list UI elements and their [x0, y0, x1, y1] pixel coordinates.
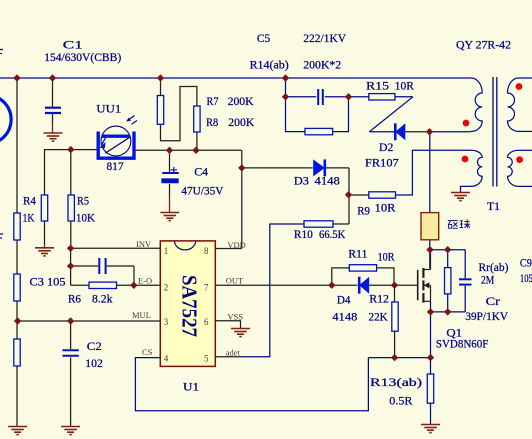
- svg-text:C2: C2: [87, 339, 102, 353]
- svg-text:Cr: Cr: [486, 294, 500, 308]
- svg-text:2M: 2M: [481, 273, 494, 287]
- svg-text:222/1KV: 222/1KV: [303, 31, 346, 45]
- svg-text:10K: 10K: [76, 211, 95, 225]
- svg-text:10R: 10R: [375, 200, 396, 214]
- svg-text:U1: U1: [183, 380, 199, 394]
- svg-text:R14(ab): R14(ab): [250, 58, 289, 72]
- svg-text:R5: R5: [77, 194, 89, 208]
- svg-text:200K: 200K: [228, 94, 254, 108]
- svg-text:UU1: UU1: [96, 102, 121, 116]
- svg-text:1: 1: [164, 246, 169, 256]
- svg-text:D4: D4: [337, 292, 351, 306]
- svg-text:22K: 22K: [369, 309, 389, 323]
- svg-text:adet: adet: [226, 348, 241, 358]
- svg-text:39P/1KV: 39P/1KV: [465, 309, 508, 323]
- svg-text:C5: C5: [257, 31, 270, 45]
- svg-text:INV: INV: [136, 239, 152, 249]
- svg-text:R7: R7: [207, 94, 219, 108]
- svg-text:200K: 200K: [228, 115, 254, 129]
- svg-text:8: 8: [204, 246, 209, 256]
- svg-text:R6: R6: [68, 292, 81, 306]
- svg-text:154/630V(CBB): 154/630V(CBB): [44, 50, 121, 64]
- svg-text:817: 817: [107, 159, 124, 173]
- svg-text:102: 102: [85, 356, 103, 370]
- svg-text:C3 105: C3 105: [30, 275, 66, 289]
- svg-text:VDD: VDD: [227, 240, 245, 250]
- svg-text:R15: R15: [366, 79, 389, 93]
- svg-text:SA7527: SA7527: [178, 275, 202, 337]
- svg-text:T1: T1: [487, 199, 500, 213]
- svg-text:R13(ab): R13(ab): [370, 375, 422, 389]
- svg-text:R10: R10: [294, 227, 313, 241]
- svg-text:0.5R: 0.5R: [389, 393, 412, 407]
- svg-text:8.2k: 8.2k: [92, 292, 113, 306]
- svg-text:C9: C9: [520, 255, 532, 269]
- svg-text:5: 5: [204, 354, 209, 364]
- svg-text:OUT: OUT: [226, 275, 244, 285]
- svg-text:4148: 4148: [332, 309, 357, 323]
- svg-text:7: 7: [204, 283, 209, 293]
- svg-text:QY 27R-42: QY 27R-42: [456, 38, 511, 52]
- svg-text:10R: 10R: [395, 79, 414, 93]
- svg-text:4: 4: [164, 354, 169, 364]
- svg-text:105: 105: [520, 271, 532, 285]
- svg-text:SVD8N60F: SVD8N60F: [436, 337, 489, 351]
- svg-text:R4: R4: [23, 194, 36, 208]
- svg-text:C4: C4: [194, 165, 208, 179]
- svg-text:R9: R9: [357, 204, 370, 218]
- svg-text:D2: D2: [379, 140, 393, 154]
- svg-text:4148: 4148: [315, 174, 340, 188]
- svg-text:R11: R11: [348, 247, 367, 261]
- svg-text:10R: 10R: [378, 249, 395, 263]
- svg-text:47U/35V: 47U/35V: [181, 184, 223, 198]
- svg-text:R12: R12: [369, 291, 389, 305]
- svg-text:D3: D3: [294, 174, 309, 188]
- svg-text:MUL: MUL: [132, 310, 151, 320]
- svg-text:2: 2: [164, 283, 169, 293]
- svg-text:1K: 1K: [23, 211, 35, 225]
- svg-text:6: 6: [204, 317, 209, 327]
- svg-text:E-O: E-O: [138, 276, 152, 286]
- svg-text:200K*2: 200K*2: [303, 58, 341, 72]
- svg-text:FR107: FR107: [365, 156, 399, 170]
- svg-text:CS: CS: [142, 347, 153, 357]
- svg-text:R8: R8: [206, 115, 218, 129]
- svg-text:66.5K: 66.5K: [319, 227, 346, 241]
- svg-text:VSS: VSS: [227, 311, 243, 321]
- svg-text:3: 3: [164, 317, 169, 327]
